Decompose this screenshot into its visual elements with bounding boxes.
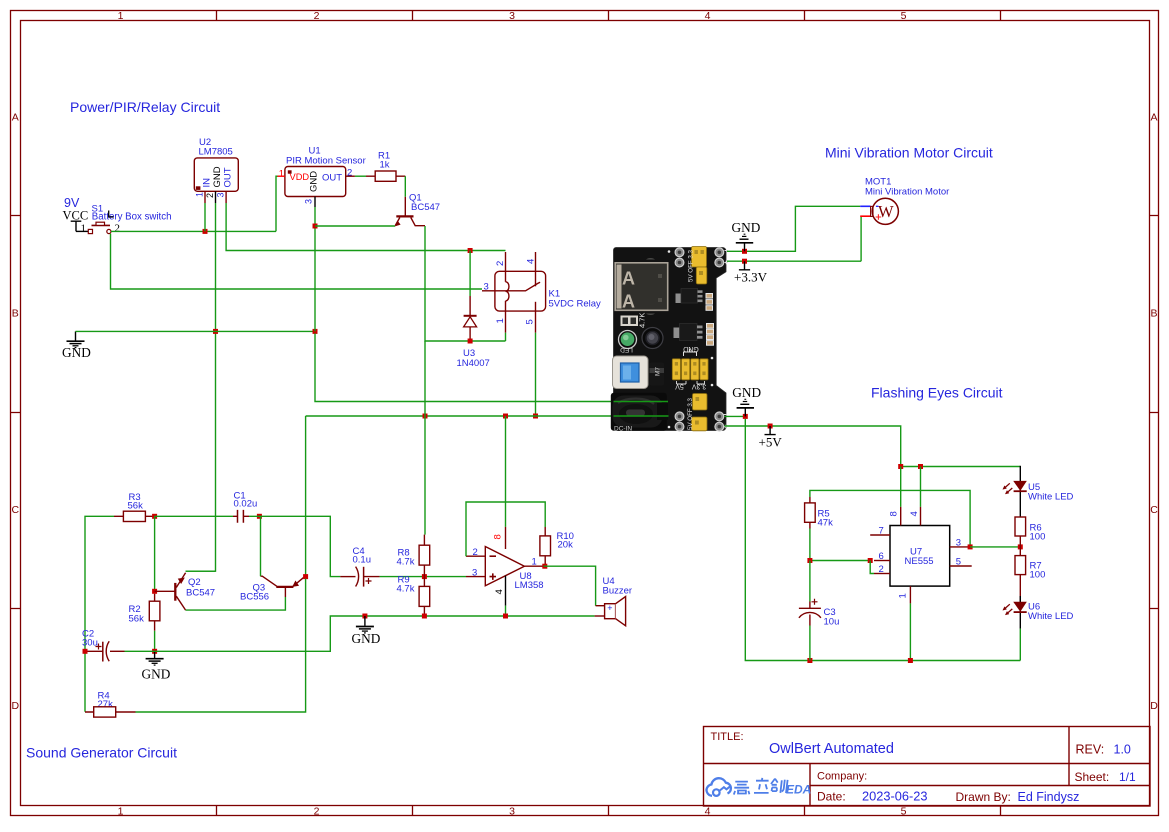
svg-text:2: 2 xyxy=(115,223,121,235)
wire U2 pin2 down long to Q2 emitter xyxy=(186,203,216,571)
svg-text:+3.3V: +3.3V xyxy=(734,270,768,285)
switch S1 xyxy=(81,204,172,235)
junction mid GND flag xyxy=(362,614,367,619)
svg-text:OUT: OUT xyxy=(322,173,342,184)
svg-text:8: 8 xyxy=(889,511,900,516)
capacitor C3 10u xyxy=(799,561,839,661)
junction 416 net at x425 xyxy=(423,414,428,419)
svg-text:3: 3 xyxy=(304,199,314,204)
breadboard power supply module photo xyxy=(611,247,728,433)
svg-text:Mini Vibration Motor: Mini Vibration Motor xyxy=(865,187,949,198)
svg-text:GND: GND xyxy=(732,385,761,400)
power flag +5V xyxy=(759,426,783,450)
junction U2 pin2 at GND rail xyxy=(213,329,218,334)
svg-text:2: 2 xyxy=(879,564,884,575)
svg-text:6: 6 xyxy=(879,551,884,562)
svg-text:4.7K: 4.7K xyxy=(638,313,647,328)
svg-text:47k: 47k xyxy=(818,518,834,529)
junction diode anode row xyxy=(468,339,473,344)
wire module top right to GND flag xyxy=(727,206,860,251)
junction R2 bottom GND xyxy=(152,649,157,654)
svg-text:2: 2 xyxy=(473,547,478,558)
wire U1 pin1 VDD to 9V rail xyxy=(276,176,278,231)
svg-text:GND: GND xyxy=(212,166,223,187)
svg-text:5: 5 xyxy=(901,806,907,818)
svg-text:Flashing Eyes Circuit: Flashing Eyes Circuit xyxy=(871,385,1003,401)
transistor Q3 BC556 xyxy=(240,576,305,602)
svg-text:1N4007: 1N4007 xyxy=(457,358,490,369)
junction pin8 top xyxy=(898,464,903,469)
ground GND flag bottom right xyxy=(732,385,761,416)
junction 416 net at x505.5 xyxy=(503,414,508,419)
junction LED column mid xyxy=(1018,544,1023,549)
svg-text:1/1: 1/1 xyxy=(1119,770,1136,784)
junction R9 bottom mid rail xyxy=(422,614,427,619)
wire U1 pin2 to R1 xyxy=(355,175,366,177)
svg-text:EDA: EDA xyxy=(786,783,811,797)
wire C1 row to x330 down to C4 xyxy=(249,516,340,576)
svg-text:GND: GND xyxy=(352,631,381,646)
svg-text:3: 3 xyxy=(216,192,226,197)
junction at U2 pin1 xyxy=(203,229,208,234)
wire module +5V line to eyes xyxy=(725,426,901,467)
svg-text:C: C xyxy=(12,504,20,516)
svg-text:Drawn By:: Drawn By: xyxy=(956,790,1011,804)
wire U1 pin3 down to emitter row xyxy=(314,207,316,331)
svg-text:GND: GND xyxy=(732,220,761,235)
svg-text:4: 4 xyxy=(494,589,505,594)
wire x305 down to R4 row xyxy=(136,579,306,712)
buzzer U4 xyxy=(603,576,633,626)
svg-text:GND: GND xyxy=(62,345,91,360)
section title Flashing Eyes Circuit xyxy=(871,385,1003,401)
wire x155 column down xyxy=(154,516,156,591)
wire R5 bottom to pin6 row xyxy=(810,529,870,561)
resistor R4 27k xyxy=(85,690,136,717)
svg-text:BC547: BC547 xyxy=(411,202,440,213)
svg-text:2: 2 xyxy=(314,806,320,818)
junction relay pin5 at 416 xyxy=(533,414,538,419)
junction C3 bottom rail xyxy=(807,658,812,663)
svg-text:LM7805: LM7805 xyxy=(199,147,233,158)
junction C2 left rail xyxy=(83,649,88,654)
svg-text:4: 4 xyxy=(909,511,920,516)
wire pin4 to mid rail xyxy=(505,606,507,616)
svg-text:3: 3 xyxy=(472,567,477,578)
diode U3 1N4007 xyxy=(457,296,490,369)
svg-text:20k: 20k xyxy=(558,540,574,551)
svg-text:5: 5 xyxy=(901,10,907,22)
wire S1 down to relay pin3 row xyxy=(111,234,483,289)
transistor Q2 BC547 xyxy=(155,573,215,610)
wire sound left rail xyxy=(85,516,114,712)
wire relay pin1 to diode row xyxy=(505,333,507,341)
wire pin3 to LED column xyxy=(970,546,1020,548)
svg-text:+: + xyxy=(607,603,612,613)
svg-text:5: 5 xyxy=(956,557,961,568)
resistor R3 56k xyxy=(114,492,154,522)
section title Sound Generator Circuit xyxy=(26,745,177,761)
wire output to buzzer xyxy=(543,566,604,606)
svg-text:1: 1 xyxy=(279,169,284,180)
wire relay pin5 down to 416 net xyxy=(535,333,537,416)
logo JLC EDA xyxy=(707,778,812,797)
wire junctions down to 555 pins 8 4 xyxy=(901,467,921,507)
ground GND mid xyxy=(352,616,381,646)
svg-text:+5V: +5V xyxy=(759,435,783,450)
svg-text:1: 1 xyxy=(898,593,909,598)
svg-text:100: 100 xyxy=(1030,532,1046,543)
svg-text:Battery Box switch: Battery Box switch xyxy=(92,211,172,222)
svg-text:IN: IN xyxy=(202,178,213,188)
svg-text:TITLE:: TITLE: xyxy=(711,731,744,743)
svg-text:Ed Findysz: Ed Findysz xyxy=(1018,790,1080,804)
junction Q3 emitter x305 xyxy=(303,574,308,579)
svg-text:100: 100 xyxy=(1030,570,1046,581)
junction Q2 base R2 xyxy=(152,589,157,594)
title block texts xyxy=(711,731,1137,804)
wire overlay into module jack upper xyxy=(614,401,669,403)
resistor R1 1k xyxy=(366,151,405,182)
svg-text:5V OFF 3.3: 5V OFF 3.3 xyxy=(687,249,694,282)
svg-text:1: 1 xyxy=(195,192,205,197)
svg-text:1.0: 1.0 xyxy=(1114,743,1131,757)
svg-text:D: D xyxy=(1150,700,1158,712)
svg-text:Sheet:: Sheet: xyxy=(1075,770,1110,784)
svg-text:VCC: VCC xyxy=(63,209,89,223)
svg-text:4.7k: 4.7k xyxy=(397,584,415,595)
junction GND rail at x315 xyxy=(313,329,318,334)
svg-text:4.7k: 4.7k xyxy=(397,557,415,568)
svg-text:1: 1 xyxy=(532,557,537,568)
svg-text:56k: 56k xyxy=(128,501,144,512)
svg-text:W: W xyxy=(878,202,894,221)
svg-text:OwlBert Automated: OwlBert Automated xyxy=(769,741,894,757)
svg-text:LED: LED xyxy=(620,346,633,353)
svg-text:BC547: BC547 xyxy=(186,587,215,598)
svg-text:C: C xyxy=(1150,504,1158,516)
svg-text:Q2: Q2 xyxy=(188,577,201,588)
capacitor C1 0.02u xyxy=(233,490,257,523)
svg-text:0.1u: 0.1u xyxy=(353,555,372,566)
svg-text:1: 1 xyxy=(118,10,124,22)
wire GND rail xyxy=(76,330,316,332)
svg-text:5V: 5V xyxy=(675,383,684,390)
wire C4 to opamp pin3 xyxy=(380,576,466,578)
section title Power/PIR/Relay Circuit xyxy=(70,99,220,115)
section title Mini Vibration Motor Circuit xyxy=(825,145,993,161)
resistor R10 20k xyxy=(540,527,574,566)
junction R5 C3 pin6 xyxy=(807,558,812,563)
svg-text:2: 2 xyxy=(205,193,215,198)
ground GND flag top right xyxy=(732,220,761,251)
wire emitter row to Q1 xyxy=(315,225,395,227)
wire x425 from diode row down to R8 xyxy=(424,341,426,535)
svg-text:8: 8 xyxy=(493,534,504,539)
wire module bottom right to GND xyxy=(725,415,746,417)
svg-text:3.3V: 3.3V xyxy=(691,383,706,390)
svg-text:2: 2 xyxy=(314,10,320,22)
svg-text:White LED: White LED xyxy=(1028,492,1074,503)
svg-text:A: A xyxy=(1150,112,1157,124)
wire Q2 collector to Q3 base xyxy=(186,597,286,610)
svg-text:D: D xyxy=(12,700,20,712)
transistor Q1 BC547 xyxy=(395,193,440,227)
resistor R7 100 xyxy=(1015,547,1045,602)
svg-text:5V OFF 3.3: 5V OFF 3.3 xyxy=(687,397,694,430)
junction pin1 bottom rail xyxy=(908,658,913,663)
svg-text:NE555: NE555 xyxy=(905,556,934,567)
junction U1 gnd emitter row xyxy=(313,224,318,229)
svg-text:5VDC Relay: 5VDC Relay xyxy=(549,299,602,310)
svg-text:OUT: OUT xyxy=(223,167,234,187)
wire R2 to C2 row xyxy=(154,631,156,652)
svg-text:A: A xyxy=(622,269,635,289)
LED U6 White LED xyxy=(1003,596,1074,629)
op-amp U8 LM358 xyxy=(466,527,544,606)
wire R3 to C1 xyxy=(155,515,233,517)
svg-text:White LED: White LED xyxy=(1028,611,1074,622)
wire Q3 collector up to C1 junction xyxy=(260,516,262,576)
junction pin4 mid rail xyxy=(503,614,508,619)
svg-text:DC-IN: DC-IN xyxy=(614,426,632,433)
wire module to +3.3V and motor xyxy=(727,216,861,261)
wire pin6 junction down to pin2 xyxy=(870,561,874,574)
sensor U1 PIR Motion Sensor xyxy=(277,146,366,208)
wire R5 top loop to pin3 column xyxy=(810,490,970,547)
svg-text:GND: GND xyxy=(683,345,699,352)
wire mid rail xyxy=(340,615,595,617)
wire overlay into module jack lower xyxy=(614,415,669,417)
wire U6 to bottom rail xyxy=(1019,629,1021,661)
wire pin1 down to bottom rail xyxy=(909,603,911,660)
svg-text:3: 3 xyxy=(956,537,961,548)
svg-text:1k: 1k xyxy=(380,160,390,171)
resistor R9 4.7k xyxy=(397,574,430,616)
svg-text:5: 5 xyxy=(525,319,536,324)
svg-text:A: A xyxy=(12,112,19,124)
svg-text:2: 2 xyxy=(495,261,506,266)
wire VCC to S1 pin1 xyxy=(76,230,88,232)
capacitor C4 0.1u xyxy=(340,546,379,586)
wire Q1 collector down to diode row xyxy=(425,226,506,341)
wire C2 row to x330 up to mid rail xyxy=(125,616,341,651)
timer U7 NE555 xyxy=(870,507,972,604)
svg-text:Date:: Date: xyxy=(817,790,846,804)
power flag +3.3V xyxy=(734,261,768,284)
junction GND bottom right xyxy=(743,414,748,419)
junction opamp output xyxy=(542,564,547,569)
resistor R6 100 xyxy=(1015,517,1045,547)
wire x315 down to y401.5 and right to module xyxy=(315,333,617,401)
svg-text:GND: GND xyxy=(142,667,171,682)
motor MOT1 xyxy=(860,177,949,225)
wire diode cathode to 5V line junction xyxy=(468,248,473,296)
junction R3 right x155 xyxy=(152,514,157,519)
wire +5V top distribution to LED U5 xyxy=(901,466,1021,468)
wire S1 pin2 to main 9V rail xyxy=(111,230,276,232)
svg-text:BC556: BC556 xyxy=(240,591,269,602)
resistor R2 56k xyxy=(129,594,160,631)
svg-text:VDD: VDD xyxy=(290,172,310,182)
svg-text:Power/PIR/Relay Circuit: Power/PIR/Relay Circuit xyxy=(70,99,220,115)
junction pin4 top xyxy=(918,464,923,469)
svg-text:4: 4 xyxy=(705,10,711,22)
junction +3.3V xyxy=(742,259,747,264)
wire GND down to eyes bottom rail xyxy=(745,419,1020,661)
svg-text:M7: M7 xyxy=(655,367,662,376)
svg-text:Mini Vibration Motor Circuit: Mini Vibration Motor Circuit xyxy=(825,145,993,161)
svg-text:1: 1 xyxy=(81,223,87,235)
net flag VCC 9V xyxy=(63,196,89,231)
svg-text:REV:: REV: xyxy=(1076,743,1105,757)
svg-text:4: 4 xyxy=(525,259,536,264)
wire opamp pin2 feedback loop xyxy=(466,502,545,556)
svg-text:3: 3 xyxy=(509,10,515,22)
LED U5 White LED xyxy=(1003,466,1074,517)
junction C1 right x260 xyxy=(257,514,262,519)
svg-text:2023-06-23: 2023-06-23 xyxy=(862,789,927,804)
resistor R5 47k xyxy=(805,497,833,529)
svg-text:B: B xyxy=(1150,308,1157,320)
relay K1 5VDC xyxy=(482,252,601,333)
junction +5V xyxy=(768,424,773,429)
junction pin6 stub xyxy=(868,558,873,563)
svg-text:B: B xyxy=(12,308,19,320)
wire mid rail into buzzer minus xyxy=(595,615,605,617)
svg-text:4: 4 xyxy=(705,806,711,818)
svg-text:3: 3 xyxy=(509,806,515,818)
wire R1 to Q1 base xyxy=(404,176,406,197)
wire 416 net horizontal xyxy=(306,416,617,577)
wire U2 pin1 down to 9V rail xyxy=(204,203,206,231)
title block xyxy=(704,727,1151,807)
resistor R8 4.7k xyxy=(397,535,430,577)
junction pin3 xyxy=(968,544,973,549)
svg-text:0.02u: 0.02u xyxy=(234,499,258,510)
ground GND under R2 xyxy=(142,651,171,681)
svg-text:56k: 56k xyxy=(129,614,145,625)
svg-text:LM358: LM358 xyxy=(515,580,544,591)
wire x505.5 down to op-amp pin8 xyxy=(505,416,507,527)
svg-text:PIR Motion Sensor: PIR Motion Sensor xyxy=(286,156,366,167)
regulator U2 LM7805 xyxy=(194,137,238,203)
wire Q2 emitter to x215 xyxy=(186,570,216,572)
junction GND top right xyxy=(742,249,747,254)
svg-text:Company:: Company: xyxy=(817,771,867,783)
wire U2 pin3 5V line to relay pin2 xyxy=(226,203,505,251)
svg-text:1: 1 xyxy=(495,318,506,323)
junction C4 row R8 R9 xyxy=(422,574,427,579)
ground GND left xyxy=(62,331,91,359)
svg-text:Buzzer: Buzzer xyxy=(603,585,633,596)
svg-text:7: 7 xyxy=(879,526,884,537)
svg-text:10u: 10u xyxy=(824,617,840,628)
svg-text:A: A xyxy=(622,292,635,312)
svg-text:1: 1 xyxy=(118,806,124,818)
svg-text:Sound Generator Circuit: Sound Generator Circuit xyxy=(26,745,177,761)
svg-text:GND: GND xyxy=(309,171,320,192)
capacitor C2 30u xyxy=(82,629,125,662)
svg-text:30u: 30u xyxy=(82,638,98,649)
